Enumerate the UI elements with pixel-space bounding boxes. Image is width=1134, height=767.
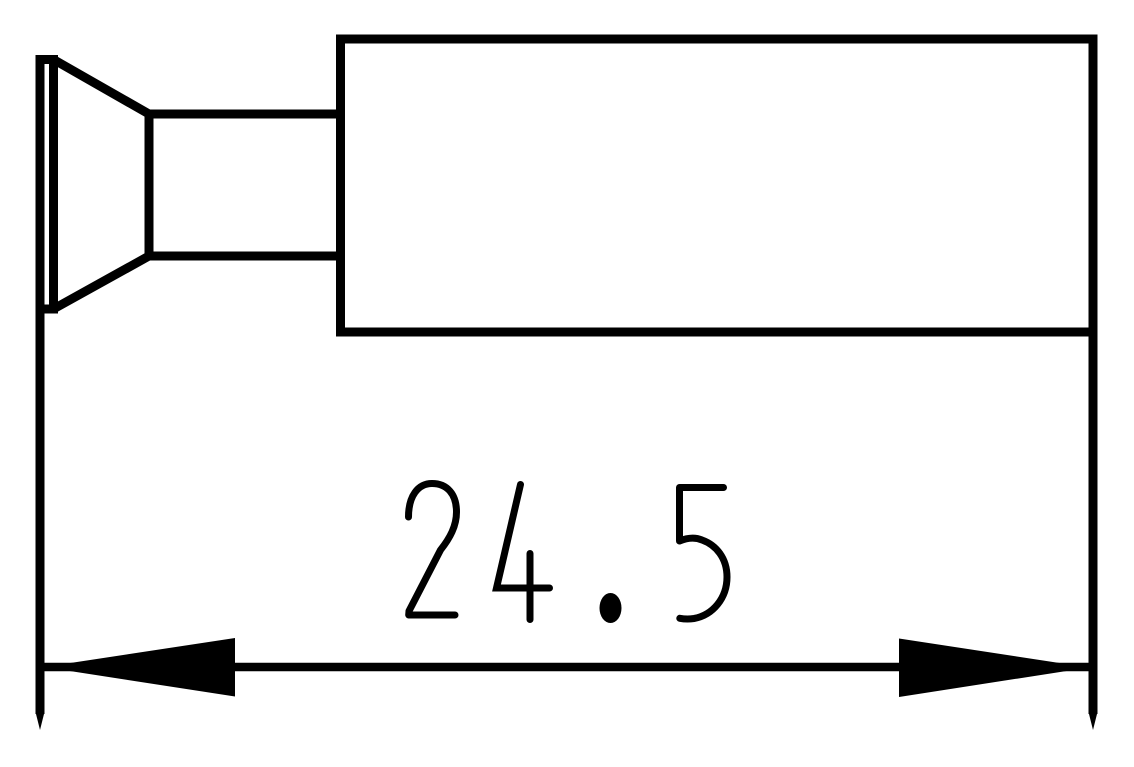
dimension text decimal point <box>600 593 622 623</box>
body rectangle <box>341 39 1094 332</box>
countersink cone and shaft outline <box>54 60 341 310</box>
left extension line tapered tip <box>36 712 45 730</box>
left arrowhead <box>44 638 235 697</box>
screw head face (countersunk head flat) <box>40 60 54 310</box>
dimension text digit 5 <box>680 488 728 619</box>
dimension text digit 2 <box>409 484 457 616</box>
right extension line tapered tip <box>1089 712 1098 730</box>
right arrowhead <box>899 639 1089 698</box>
left extension line <box>36 60 45 715</box>
dimension line <box>40 663 1093 672</box>
dimension text digit 4 diagonal and crossbar <box>497 485 550 589</box>
cone-shaft junction line <box>145 110 154 261</box>
dimension text digit 4 stem <box>527 554 534 620</box>
right extension line <box>1089 330 1098 714</box>
